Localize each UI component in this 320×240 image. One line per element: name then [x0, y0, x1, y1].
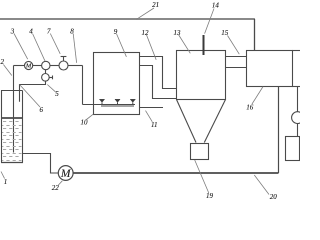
svg-text:21: 21 [152, 1, 159, 9]
svg-text:16: 16 [246, 103, 254, 111]
svg-text:5: 5 [55, 90, 59, 98]
svg-text:9: 9 [114, 28, 118, 36]
svg-text:1: 1 [4, 178, 8, 186]
svg-text:22: 22 [52, 184, 60, 192]
svg-text:6: 6 [40, 106, 44, 114]
svg-text:13: 13 [174, 29, 182, 37]
svg-text:14: 14 [212, 2, 220, 10]
svg-text:10: 10 [81, 118, 89, 126]
svg-text:8: 8 [70, 28, 74, 36]
svg-text:20: 20 [270, 193, 278, 200]
svg-text:3: 3 [10, 28, 15, 36]
svg-text:M: M [25, 63, 32, 70]
svg-text:19: 19 [206, 192, 214, 200]
svg-text:2: 2 [0, 58, 4, 66]
svg-text:7: 7 [47, 28, 51, 36]
svg-text:15: 15 [221, 29, 229, 37]
svg-text:12: 12 [142, 29, 150, 37]
svg-text:M: M [60, 168, 72, 180]
svg-text:4: 4 [29, 28, 33, 36]
svg-text:11: 11 [151, 121, 157, 129]
